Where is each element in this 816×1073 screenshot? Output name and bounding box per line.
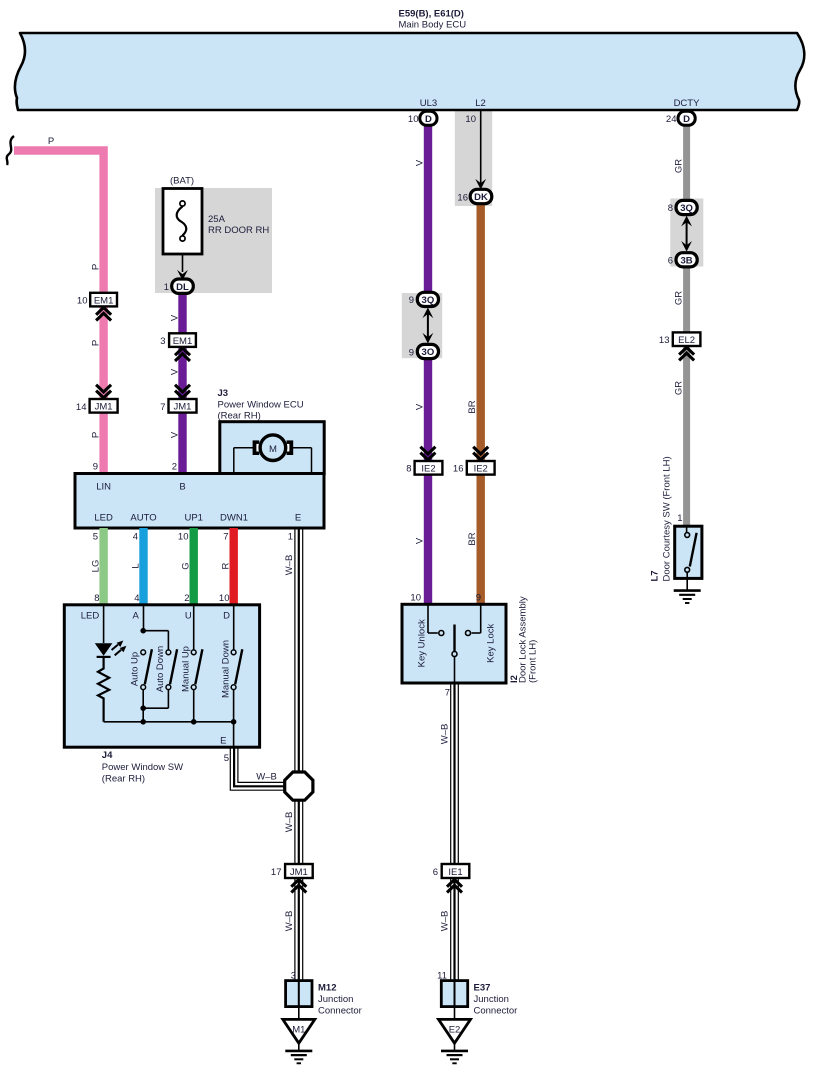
courtesy switch contact (685, 526, 697, 590)
wire V (middle purple) from Main Body ECU UL3 pin 10 (424, 126, 432, 605)
switch J4 main box (64, 605, 259, 747)
connector EM1 pin 3 (purple) (160, 333, 196, 361)
switch Manual Down (220, 605, 242, 725)
svg-text:10: 10 (77, 296, 88, 307)
svg-text:10: 10 (465, 114, 476, 125)
double arrow between 3Q and 3B (681, 216, 692, 252)
svg-text:16: 16 (457, 192, 468, 203)
svg-text:AUTO: AUTO (130, 513, 156, 524)
svg-text:8: 8 (94, 593, 99, 604)
svg-text:E: E (220, 736, 226, 747)
svg-text:E: E (295, 513, 301, 524)
wire from M12 to ground M1 (298, 1007, 300, 1019)
connector D pin 10 (UL3) (408, 111, 437, 125)
junction connector M12 (286, 981, 362, 1017)
svg-text:24: 24 (666, 114, 677, 125)
svg-text:V: V (170, 314, 181, 321)
ECU U1 motor sub-box (220, 422, 324, 474)
svg-text:Junction: Junction (474, 994, 509, 1005)
svg-text:(BAT): (BAT) (170, 176, 194, 187)
svg-text:B: B (179, 482, 185, 493)
svg-text:P: P (91, 264, 102, 270)
wire R from ECU pin 7 to SW pin 10 (229, 528, 237, 605)
svg-text:7: 7 (160, 402, 165, 413)
svg-text:W–B: W–B (440, 911, 451, 932)
svg-text:Manual Down: Manual Down (220, 640, 231, 698)
svg-text:P: P (91, 432, 102, 438)
svg-text:IE1: IE1 (448, 867, 462, 878)
break squiggle on pink wire (7, 136, 14, 165)
chevrons below JM1 (291, 880, 306, 893)
svg-text:9: 9 (93, 462, 98, 473)
svg-text:5: 5 (224, 753, 229, 764)
wire from fuse to connector DL (182, 254, 184, 272)
svg-text:JM1: JM1 (95, 402, 113, 413)
svg-text:E2: E2 (449, 1025, 461, 1036)
shading rect behind L2/DK connector (455, 111, 492, 206)
svg-text:3B: 3B (681, 255, 693, 266)
svg-text:Connector: Connector (318, 1006, 362, 1017)
wire W-B from IE1 to E37 (451, 878, 459, 981)
svg-text:D: D (425, 114, 432, 125)
svg-text:Main Body ECU: Main Body ECU (399, 20, 467, 31)
svg-text:UL3: UL3 (420, 98, 437, 109)
svg-text:L7: L7 (650, 570, 661, 581)
door lock assembly I2 box (402, 604, 506, 683)
svg-text:4: 4 (134, 593, 139, 604)
connector 3Q pin 8 (right) (668, 200, 697, 214)
shading rect behind connectors 3Q/3O (402, 293, 442, 358)
svg-text:LED: LED (81, 611, 100, 622)
svg-text:BR: BR (467, 532, 478, 545)
svg-text:25A: 25A (208, 214, 226, 225)
svg-text:3O: 3O (422, 347, 435, 358)
svg-text:13: 13 (659, 335, 670, 346)
Main Body ECU band E59(B), E61(D) (15, 33, 804, 110)
svg-text:(Front LH): (Front LH) (527, 640, 538, 683)
svg-text:GR: GR (674, 291, 685, 305)
svg-text:GR: GR (674, 159, 685, 173)
junction connector E37 (441, 981, 517, 1017)
ECU J3 main box (75, 474, 324, 529)
svg-text:Door Courtesy SW (Front LH): Door Courtesy SW (Front LH) (662, 456, 673, 581)
key lock contact (466, 604, 497, 663)
svg-text:W–B: W–B (284, 911, 295, 932)
chevrons below IE1 (447, 880, 462, 893)
label I2 Door Lock Assembly (Front LH) (509, 596, 539, 683)
label J4 Power Window SW (Rear RH) (102, 750, 183, 785)
svg-text:DCTY: DCTY (674, 98, 701, 109)
connector EM1 pin 10 (pink) (77, 293, 117, 321)
wire GR (gray) from Main Body ECU DCTY pin 24 (683, 126, 690, 527)
svg-text:DK: DK (474, 192, 488, 203)
svg-text:8: 8 (406, 464, 411, 475)
junction octagon W-B (285, 772, 313, 800)
connector EL2 pin 13 (gray) (659, 332, 700, 360)
switch Manual Up (180, 605, 202, 725)
svg-text:Auto Down: Auto Down (155, 646, 166, 692)
svg-text:9: 9 (409, 295, 414, 306)
svg-text:Power Window SW: Power Window SW (102, 762, 183, 773)
svg-text:17: 17 (271, 867, 282, 878)
svg-text:2: 2 (172, 462, 177, 473)
svg-text:7: 7 (223, 532, 228, 543)
svg-text:E59(B), E61(D): E59(B), E61(D) (399, 9, 464, 20)
svg-text:J4: J4 (102, 750, 113, 761)
svg-text:Key Lock: Key Lock (486, 624, 497, 663)
svg-text:V: V (170, 368, 181, 375)
svg-text:10: 10 (178, 532, 189, 543)
svg-text:(Rear RH): (Rear RH) (102, 774, 145, 785)
label J3 Power Window ECU (Rear RH) (218, 388, 304, 422)
svg-text:V: V (415, 159, 426, 166)
wire W-B from J4 pin 5 E to junction (230, 747, 286, 790)
svg-text:A: A (133, 611, 140, 622)
svg-text:6: 6 (668, 256, 673, 267)
svg-text:G: G (181, 562, 192, 569)
wire BR (brown) from DK connector to door lock pin 9 (477, 203, 485, 605)
svg-text:10: 10 (410, 593, 421, 604)
svg-text:Key Unlock: Key Unlock (416, 619, 427, 667)
svg-text:Auto Up: Auto Up (130, 652, 141, 686)
LED D1 with resistor (95, 605, 127, 722)
svg-text:DL: DL (176, 282, 189, 293)
svg-text:V: V (170, 431, 181, 438)
svg-text:LED: LED (94, 513, 113, 524)
svg-text:IE2: IE2 (474, 464, 488, 475)
connector 3O pin 9 (409, 344, 439, 358)
wire LG from ECU pin 5 to SW pin 8 (99, 528, 107, 605)
svg-text:DWN1: DWN1 (220, 513, 248, 524)
svg-text:5: 5 (93, 532, 98, 543)
svg-text:W–B: W–B (284, 812, 295, 833)
svg-text:EM1: EM1 (173, 336, 193, 347)
connector 3Q pin 9 (middle) (409, 292, 439, 306)
svg-text:D: D (223, 611, 230, 622)
svg-text:9: 9 (476, 593, 481, 604)
connector IE2 pin 8 (purple) (406, 447, 442, 475)
ground symbol M1 (285, 1043, 312, 1063)
svg-text:Manual Up: Manual Up (180, 646, 191, 692)
connector JM1 pin 14 (pink) (76, 385, 118, 413)
connector DK pin 16 (457, 189, 491, 203)
connector DL pin 1 (164, 279, 194, 293)
wire from E37 to ground E2 (454, 1007, 456, 1019)
svg-text:P: P (91, 340, 102, 346)
svg-text:W–B: W–B (440, 724, 451, 745)
svg-text:3: 3 (160, 336, 165, 347)
wire from L2 pin 10 to connector DK (465, 111, 486, 190)
svg-text:W–B: W–B (256, 772, 277, 783)
svg-text:J3: J3 (218, 388, 229, 399)
wire W-B from door lock pin 7 to IE1 (451, 684, 459, 864)
svg-text:E37: E37 (474, 983, 491, 994)
svg-text:R: R (221, 562, 232, 569)
svg-text:7: 7 (445, 688, 450, 699)
svg-text:GR: GR (674, 381, 685, 395)
motor M inside ECU (234, 435, 312, 472)
svg-text:Connector: Connector (474, 1006, 518, 1017)
svg-text:P: P (48, 136, 54, 147)
svg-text:14: 14 (76, 402, 87, 413)
purple wire V from fuse DL to ECU pin 2 (178, 292, 186, 474)
ground triangle E2 (439, 1019, 471, 1043)
label L7 Door Courtesy SW (Front LH) (650, 456, 673, 581)
svg-text:D: D (683, 114, 690, 125)
svg-text:LIN: LIN (96, 482, 111, 493)
svg-text:6: 6 (433, 867, 438, 878)
door courtesy switch L7 box (675, 526, 702, 578)
wire W-B from JM1 to M12 (295, 878, 303, 981)
svg-text:8: 8 (668, 203, 673, 214)
switch Auto Up (130, 605, 169, 725)
key unlock contact (416, 604, 444, 667)
double arrow between 3Q and 3O (423, 308, 434, 344)
svg-text:Junction: Junction (318, 994, 353, 1005)
shading rect behind connectors 3Q/3B (670, 199, 703, 267)
label E59(B), E61(D) Main Body ECU (399, 9, 467, 31)
svg-text:IE2: IE2 (421, 464, 435, 475)
svg-text:W–B: W–B (284, 555, 295, 576)
ground symbol (courtesy SW) (674, 591, 701, 603)
svg-text:3Q: 3Q (680, 203, 693, 214)
switch Auto Down (143, 631, 177, 709)
svg-text:BR: BR (467, 400, 478, 413)
wire P (pink) from break to Power Window ECU pin 9 (14, 151, 104, 474)
shading rect behind fuse 25A (155, 188, 272, 293)
svg-text:1: 1 (677, 513, 682, 524)
svg-text:M: M (269, 444, 277, 455)
wire bus inside J4 (104, 721, 234, 723)
svg-text:L2: L2 (475, 98, 486, 109)
wire from bus to pin E inside J4 (233, 722, 235, 746)
wire W-B from ECU pin 1 E to junction (295, 528, 303, 774)
svg-text:L: L (131, 563, 142, 568)
svg-text:M12: M12 (318, 983, 336, 994)
svg-text:1: 1 (164, 282, 169, 293)
ground triangle M1 (283, 1019, 315, 1043)
svg-text:JM1: JM1 (290, 867, 308, 878)
svg-text:3Q: 3Q (422, 295, 435, 306)
svg-text:16: 16 (453, 464, 464, 475)
svg-text:EL2: EL2 (678, 335, 695, 346)
svg-text:2: 2 (184, 593, 189, 604)
connector 3B pin 6 (668, 253, 697, 267)
connector IE2 pin 16 (brown) (453, 447, 495, 475)
svg-text:10: 10 (219, 593, 230, 604)
wire G from ECU pin 10 to SW pin 2 (189, 528, 197, 605)
svg-text:10: 10 (408, 114, 419, 125)
svg-text:RR DOOR RH: RR DOOR RH (208, 225, 269, 236)
svg-text:4: 4 (133, 532, 138, 543)
svg-text:9: 9 (409, 347, 414, 358)
svg-text:V: V (415, 403, 426, 410)
connector D pin 24 (DCTY) (666, 111, 695, 125)
connector JM1 pin 17 (271, 864, 313, 878)
wire L from ECU pin 4 to SW pin 4 (139, 528, 147, 605)
svg-text:M1: M1 (292, 1025, 305, 1036)
svg-text:EM1: EM1 (94, 295, 114, 306)
wire W-B from junction down to JM1 (295, 801, 303, 865)
svg-text:LG: LG (91, 560, 102, 573)
connector IE1 pin 6 (433, 864, 470, 878)
connector JM1 pin 7 (purple) (160, 385, 196, 413)
ground symbol E2 (441, 1043, 468, 1063)
svg-text:1: 1 (288, 532, 293, 543)
fuse 25A RR DOOR RH (BAT) (163, 176, 269, 255)
svg-text:Power Window ECU: Power Window ECU (218, 400, 304, 411)
svg-text:U: U (185, 611, 192, 622)
svg-text:UP1: UP1 (184, 513, 202, 524)
svg-text:(Rear RH): (Rear RH) (218, 411, 261, 422)
switch blade key (452, 625, 457, 684)
svg-text:JM1: JM1 (174, 402, 192, 413)
svg-text:V: V (415, 537, 426, 544)
